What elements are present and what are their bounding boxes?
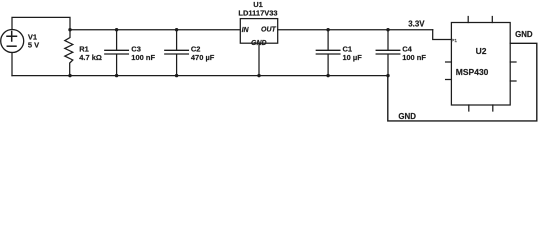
- svg-text:3.3V: 3.3V: [408, 20, 425, 29]
- wire 3.3V step down to U2 P1: [433, 30, 452, 40]
- svg-text:OUT: OUT: [261, 27, 277, 34]
- junction node U1 GND bottom: [257, 74, 260, 77]
- svg-text:C1: C1: [343, 44, 353, 53]
- svg-text:C2: C2: [191, 44, 201, 53]
- U2 top pin ticks: [468, 17, 492, 23]
- svg-text:C4: C4: [402, 44, 412, 53]
- wire U1 OUT rail to 3.3V corner: [278, 29, 433, 31]
- capacitor C3: [105, 30, 129, 76]
- wire V1 top to rail corner: [12, 17, 70, 29]
- svg-text:100 nF: 100 nF: [131, 53, 155, 62]
- wire top rail V1/R1 node to U1 IN: [70, 29, 240, 31]
- junction node R1 bottom: [68, 74, 71, 77]
- svg-text:10 µF: 10 µF: [343, 53, 363, 62]
- svg-text:GND: GND: [251, 40, 267, 47]
- wire U2 GND loop right side: [388, 43, 537, 121]
- svg-text:IN: IN: [242, 27, 250, 34]
- U2 bottom pin ticks: [469, 105, 493, 111]
- junction node C3 top: [115, 28, 118, 31]
- svg-text:GND: GND: [398, 112, 416, 121]
- junction node C4 top: [386, 28, 389, 31]
- junction node C3 bottom: [115, 74, 118, 77]
- svg-text:R1: R1: [79, 44, 89, 53]
- U2 right pin ticks: [510, 62, 516, 81]
- voltage source V1: [1, 30, 24, 53]
- junction node C2 top: [175, 28, 178, 31]
- capacitor C1: [316, 30, 340, 76]
- capacitor C2: [165, 30, 189, 76]
- wire U1 GND pin to ground rail: [258, 43, 260, 75]
- svg-text:470 µF: 470 µF: [191, 53, 215, 62]
- svg-text:U2: U2: [476, 46, 487, 56]
- svg-text:LD1117V33: LD1117V33: [238, 8, 277, 17]
- resistor R1: [65, 30, 73, 76]
- U2 left pin ticks: [446, 62, 452, 80]
- junction node C1 bottom: [326, 74, 329, 77]
- regulator U1 box: [240, 19, 277, 44]
- junction node C2 bottom: [175, 74, 178, 77]
- svg-text:4.7 kΩ: 4.7 kΩ: [79, 53, 102, 62]
- svg-text:MSP430: MSP430: [456, 67, 489, 77]
- microcontroller U2 box: [451, 23, 510, 106]
- wire bottom ground rail: [12, 75, 388, 77]
- svg-text:5 V: 5 V: [28, 40, 39, 49]
- capacitor C4: [376, 30, 400, 76]
- svg-text:100 nF: 100 nF: [402, 53, 426, 62]
- svg-text:P1: P1: [451, 38, 457, 44]
- wire V1 bottom to ground rail: [11, 53, 13, 76]
- junction node R1 top: [68, 28, 71, 31]
- svg-text:C3: C3: [131, 44, 141, 53]
- junction node C4 bottom: [386, 74, 389, 77]
- svg-text:GND: GND: [515, 30, 533, 39]
- junction node C1 top: [326, 28, 329, 31]
